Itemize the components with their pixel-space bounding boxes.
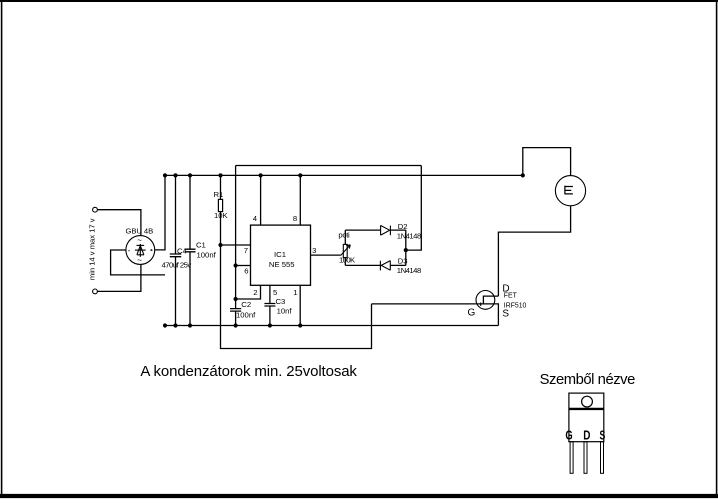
svg-text:7: 7	[244, 246, 248, 255]
svg-text:-: -	[128, 246, 131, 255]
svg-text:FET: FET	[504, 293, 518, 300]
svg-text:poti: poti	[338, 231, 350, 240]
svg-text:1N4148: 1N4148	[397, 232, 421, 241]
svg-text:C1: C1	[196, 241, 206, 250]
svg-text:NE 555: NE 555	[269, 260, 295, 269]
svg-text:G: G	[565, 428, 572, 443]
svg-text:min 14 v max 17 v: min 14 v max 17 v	[87, 218, 96, 280]
svg-text:S: S	[600, 428, 606, 443]
svg-text:C4: C4	[177, 246, 188, 255]
svg-text:IC1: IC1	[274, 250, 286, 259]
svg-text:10nf: 10nf	[277, 306, 293, 315]
svg-text:G: G	[468, 308, 476, 319]
svg-text:1N4148: 1N4148	[397, 266, 421, 275]
svg-text:6: 6	[244, 267, 248, 276]
svg-text:D3: D3	[398, 256, 408, 265]
svg-text:100nf: 100nf	[197, 250, 217, 259]
svg-text:100nf: 100nf	[236, 311, 256, 320]
svg-text:3: 3	[312, 246, 316, 255]
svg-text:S: S	[502, 308, 509, 319]
svg-text:4: 4	[253, 214, 258, 223]
svg-text:Szemből nézve: Szemből nézve	[540, 372, 636, 388]
svg-text:GBU 4B: GBU 4B	[126, 226, 154, 235]
svg-text:~: ~	[137, 236, 142, 245]
svg-text:R1: R1	[214, 190, 224, 199]
svg-text:C2: C2	[241, 300, 251, 309]
svg-text:C3: C3	[276, 297, 286, 306]
svg-text:2: 2	[253, 288, 257, 297]
svg-text:A kondenzátorok min. 25voltosa: A kondenzátorok min. 25voltosak	[140, 363, 357, 380]
svg-text:100K: 100K	[339, 256, 356, 265]
svg-text:470uf 25v: 470uf 25v	[162, 261, 192, 270]
svg-text:10K: 10K	[214, 211, 229, 220]
svg-text:~: ~	[137, 256, 142, 265]
svg-text:5: 5	[273, 288, 277, 297]
svg-text:D: D	[583, 428, 590, 443]
svg-text:8: 8	[293, 214, 297, 223]
svg-text:1: 1	[293, 288, 297, 297]
svg-text:D2: D2	[398, 222, 408, 231]
